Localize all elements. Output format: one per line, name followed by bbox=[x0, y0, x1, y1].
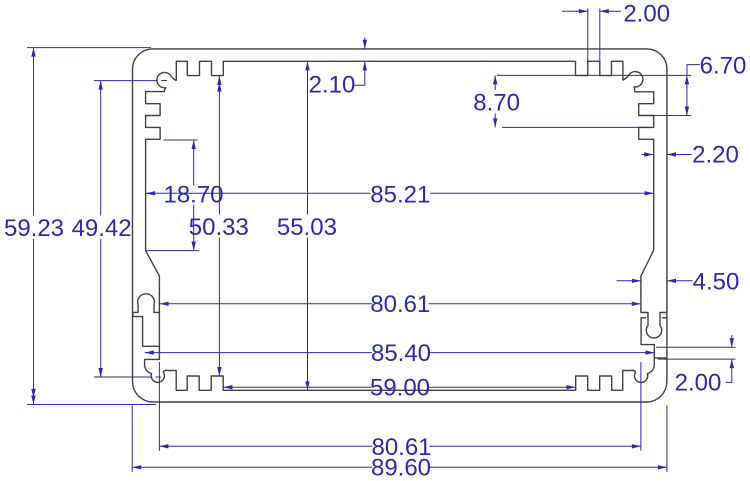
arrow 2.10 inner bbox=[363, 61, 367, 70]
dim 50.33 vertical bbox=[218, 76, 220, 376]
svg-text:85.21: 85.21 bbox=[370, 181, 430, 208]
dim 59.00 bbox=[223, 386, 575, 388]
arrow 80.61t R bbox=[632, 302, 641, 306]
dim 49.42 vertical bbox=[94, 81, 167, 378]
dim 2.00 top bbox=[562, 9, 621, 64]
arrow 85.21 right bbox=[645, 191, 654, 195]
dim 2.10 bbox=[354, 38, 365, 86]
dim 85.21 line bbox=[146, 192, 654, 194]
arrow 4.50 R bbox=[667, 279, 676, 283]
arrow 6.70 bot bbox=[685, 107, 689, 116]
arrow 59.23 bot bbox=[31, 396, 35, 405]
arrow 59.00 R bbox=[567, 385, 576, 389]
svg-text:49.42: 49.42 bbox=[72, 215, 132, 242]
arrow 85.40 L bbox=[145, 350, 154, 354]
dim 2.00 bottom right bbox=[656, 335, 736, 382]
arrow 4.50 L bbox=[632, 279, 641, 283]
arrow 50.33 top bbox=[217, 76, 221, 85]
svg-text:55.03: 55.03 bbox=[277, 214, 337, 241]
svg-text:59.00: 59.00 bbox=[370, 375, 430, 402]
arrow 2.00bot top bbox=[730, 338, 734, 347]
arrow 2.20 R bbox=[667, 152, 676, 156]
svg-text:6.70: 6.70 bbox=[700, 53, 747, 80]
arrow 89.60 L bbox=[132, 465, 141, 469]
arrow 2.00top R bbox=[600, 9, 609, 13]
arrow 85.21 left bbox=[146, 191, 155, 195]
arrow 2.20 L bbox=[644, 152, 653, 156]
screw boss circle top-left bbox=[133, 72, 176, 346]
arrow 55.03 bot bbox=[305, 381, 309, 390]
arrow 59.23 top bbox=[31, 48, 35, 57]
dim 89.60 bbox=[132, 406, 667, 473]
arrow 18.70 bot bbox=[192, 242, 196, 251]
arrow 18.70 top bbox=[192, 140, 196, 149]
arrow 8.70 bot bbox=[493, 118, 497, 127]
dim 80.61 top bbox=[160, 303, 641, 305]
arrow 49.42 top bbox=[99, 81, 103, 90]
svg-text:59.23: 59.23 bbox=[4, 215, 64, 242]
screw boss circle top-right bbox=[623, 72, 667, 338]
arrow 59.00 L bbox=[223, 385, 232, 389]
dim 55.03 vertical bbox=[307, 61, 309, 390]
svg-text:8.70: 8.70 bbox=[473, 90, 520, 117]
arrow 80.61b L bbox=[159, 444, 168, 448]
arrow 2.10 outer bbox=[363, 40, 367, 49]
dim 6.70 bbox=[497, 65, 700, 116]
arrow 2.00bot bot bbox=[730, 359, 734, 368]
svg-text:89.60: 89.60 bbox=[371, 455, 431, 481]
inner ceiling with PCB ribs and 2mm screw slot bbox=[176, 61, 623, 80]
dim 80.61 bottom bbox=[159, 362, 641, 451]
svg-text:4.50: 4.50 bbox=[693, 269, 740, 296]
svg-text:50.33: 50.33 bbox=[189, 214, 249, 241]
svg-text:2.00: 2.00 bbox=[675, 369, 722, 396]
svg-text:18.70: 18.70 bbox=[163, 181, 223, 208]
arrow 2.00top L bbox=[579, 9, 588, 13]
svg-text:2.20: 2.20 bbox=[692, 142, 739, 169]
arrow 89.60 R bbox=[658, 465, 667, 469]
arrow 55.03 top bbox=[305, 61, 309, 70]
screw channel bottom-right body bbox=[641, 318, 667, 358]
arrow 59.23 bot2 bbox=[31, 389, 35, 398]
arrow 50.33 bot bbox=[217, 367, 221, 376]
svg-text:80.61: 80.61 bbox=[370, 291, 430, 318]
svg-text:2.00: 2.00 bbox=[623, 1, 670, 28]
dim 2.20 bbox=[642, 154, 692, 156]
dim 8.70 bbox=[495, 75, 648, 127]
dim 59.23 vertical bbox=[27, 48, 156, 405]
arrow 6.70 top bbox=[685, 75, 689, 84]
enclosure outer shell bbox=[133, 49, 668, 402]
arrow 49.42 bot bbox=[99, 368, 103, 377]
screw channel bottom-left bbox=[145, 312, 655, 390]
arrow 50.33 top2 bbox=[217, 83, 221, 92]
dim 4.50 bbox=[617, 280, 693, 282]
arrow 85.40 R bbox=[646, 350, 655, 354]
svg-text:85.40: 85.40 bbox=[371, 340, 431, 367]
arrow 8.70 top bbox=[493, 75, 497, 84]
dim 85.40 bbox=[145, 352, 655, 354]
dim 18.70 vertical bbox=[145, 140, 199, 251]
arrow 80.61b R bbox=[632, 444, 641, 448]
arrow 80.61t L bbox=[160, 302, 169, 306]
svg-text:2.10: 2.10 bbox=[309, 72, 356, 99]
